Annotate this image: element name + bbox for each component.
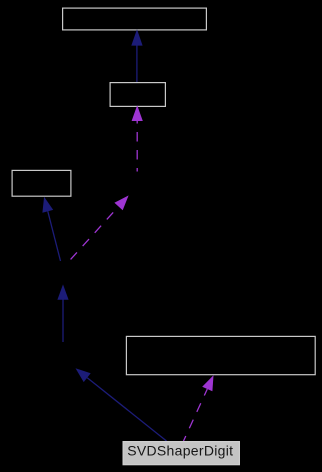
node SVDShaperDigit (current class, filled) [123, 442, 239, 465]
svg-text:SVDShaperDigit: SVDShaperDigit [127, 443, 233, 459]
wire solid edge node B to box3 [42, 197, 60, 261]
wire dashed edge node A to box2 [132, 105, 143, 171]
wire solid edge node C to node B [57, 284, 68, 342]
node box right wide (class, hidden label) [126, 336, 315, 374]
node box second (class, hidden label) [110, 83, 165, 107]
node box top (class, hidden label) [63, 8, 207, 30]
wire dashed edge node B to node A [66, 195, 129, 264]
wire dashed edge SVDShaperDigit to box4 [184, 375, 214, 441]
wire solid edge SVDShaperDigit to node C [76, 368, 167, 441]
wire solid edge box2 to box1 [131, 29, 142, 82]
node box left (class, hidden label) [12, 170, 71, 196]
